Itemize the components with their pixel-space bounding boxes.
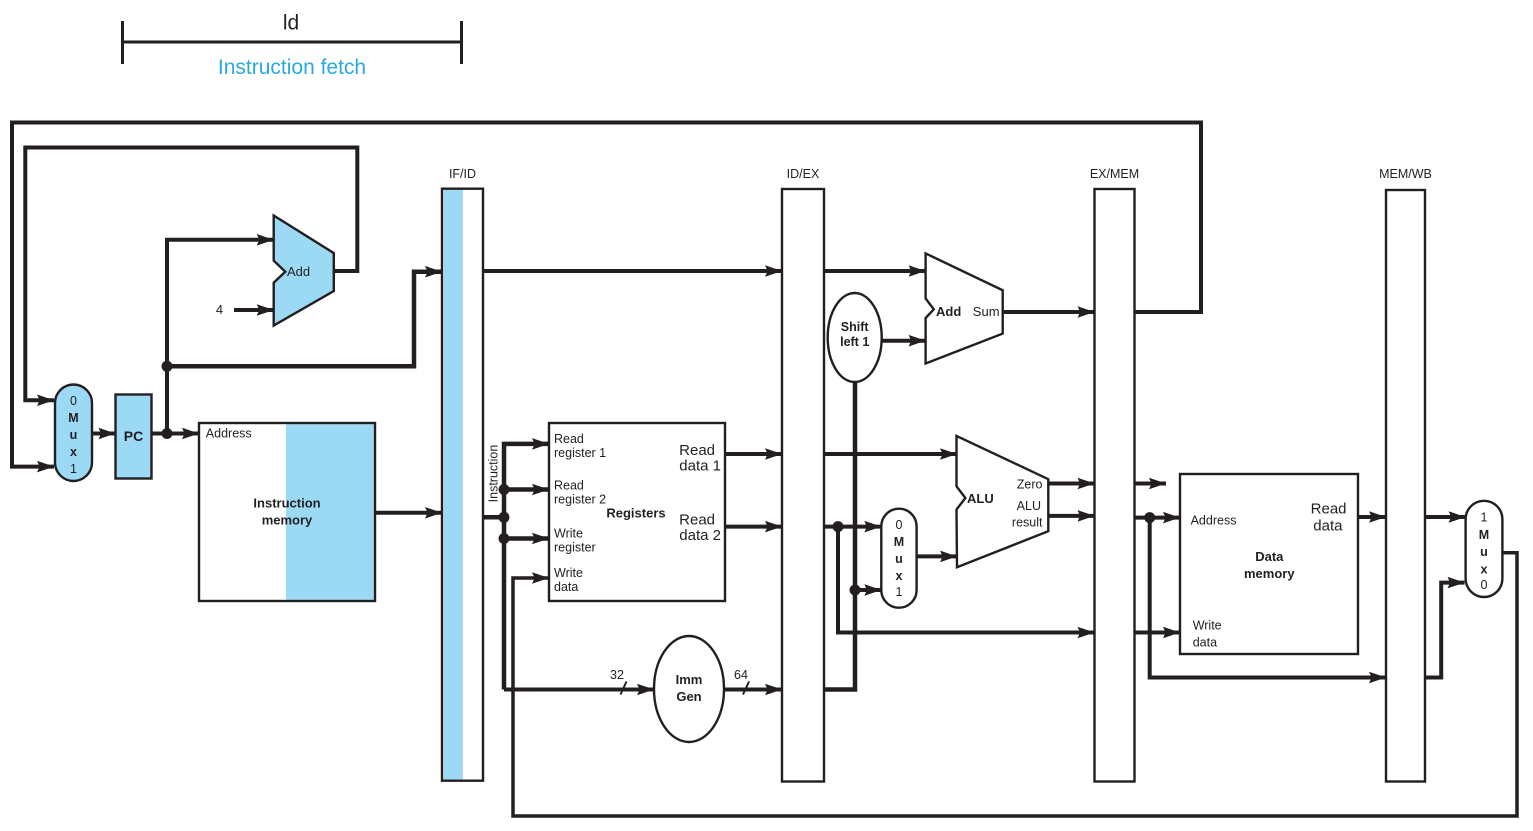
svg-text:Zero: Zero [1017,478,1043,492]
slash 64-bit [743,682,749,695]
pipeline register ID/EX [782,167,824,782]
svg-text:x: x [70,445,77,459]
svg-text:MEM/WB: MEM/WB [1379,167,1432,181]
wire PC to Instruction memory Address [152,432,199,436]
wire instruction to Write register [504,536,549,541]
junction instruction read register 2 [499,484,510,495]
svg-text:M: M [894,535,904,549]
block Registers [549,423,725,601]
wire write-back to Write data [513,553,1517,816]
svg-text:Address: Address [1191,514,1237,528]
adder Add (branch target) [926,253,1003,363]
svg-text:IF/ID: IF/ID [449,167,476,181]
wire ALU result branch to MEM/WB [1150,518,1386,678]
wire EX/MEM write data to Data memory [1135,631,1181,635]
wire MEM/WB ALU result to Mux 0 [1425,583,1465,678]
wire PC value to IF/ID [167,272,442,367]
svg-text:1: 1 [896,585,903,599]
mux M1 (PC source) [55,385,92,482]
svg-text:0: 0 [1481,578,1488,592]
register PC [116,395,152,479]
svg-text:Read: Read [554,479,584,493]
junction immediate [850,585,861,596]
svg-text:memory: memory [262,513,313,528]
adder Add (PC+4) [274,216,334,326]
junction instruction main [499,512,510,523]
svg-text:Write: Write [554,527,583,541]
wire Instruction memory to IF/ID [375,511,442,515]
svg-text:result: result [1012,516,1043,530]
svg-text:Gen: Gen [676,689,701,704]
block Shift left 1 [828,293,882,382]
svg-text:Read: Read [554,432,584,446]
svg-text:0: 0 [70,394,77,408]
svg-text:ALU: ALU [967,491,994,506]
svg-text:64: 64 [734,668,748,682]
wire PC+4 feedback loop to Mux input 0 [25,148,357,401]
svg-text:x: x [1481,563,1488,577]
junction PC out [162,428,173,439]
svg-text:u: u [70,428,78,442]
svg-text:data 2: data 2 [679,527,721,544]
svg-text:register: register [554,541,596,555]
wire ID/EX read data 1 to ALU [824,452,957,456]
svg-text:M: M [1479,528,1489,542]
svg-text:Write: Write [554,566,583,580]
block Data memory [1180,474,1358,654]
svg-text:data: data [1313,518,1343,535]
svg-text:data 1: data 1 [679,458,721,475]
wire read data 2 branch to EX/MEM [838,527,1095,633]
svg-text:Data: Data [1255,549,1284,564]
wire IF/ID PC value to ID/EX [483,269,782,273]
svg-text:Sum: Sum [973,304,1000,319]
svg-text:Add: Add [936,304,961,319]
wire ALU Zero to EX/MEM [1048,482,1094,486]
block Instruction memory [199,423,375,601]
wire MEM/WB read data to Mux 1 [1425,515,1466,519]
bracket for ld span [123,21,462,64]
svg-text:ALU: ALU [1017,499,1041,513]
wire EX/MEM Zero out [1135,482,1167,486]
svg-text:Instruction: Instruction [487,445,501,503]
ALU [957,436,1049,567]
svg-text:register 2: register 2 [554,493,606,507]
wire ID/EX PC value to Add top input [824,269,926,273]
svg-text:Address: Address [206,427,252,441]
junction instruction write register [499,533,510,544]
pipeline register IF/ID [442,167,483,781]
svg-text:data: data [1193,635,1217,649]
wire EX/MEM ALU result to Data memory Address [1135,516,1181,520]
svg-text:32: 32 [610,668,624,682]
svg-text:Read: Read [679,442,715,459]
mux M2 (ALU operand B) [881,509,916,608]
svg-text:x: x [896,569,903,583]
wire immediate to Mux 1 [855,588,881,592]
svg-text:left 1: left 1 [840,335,869,349]
mux M3 (write-back) [1466,501,1503,597]
svg-text:4: 4 [216,302,223,317]
wire Mux to ALU lower input [917,554,957,558]
svg-text:PC: PC [124,428,143,444]
svg-text:Write: Write [1193,619,1222,633]
pipeline register MEM/WB [1379,167,1432,782]
svg-text:memory: memory [1244,566,1295,581]
wire instruction to Read register 1 [504,444,549,690]
svg-text:ld: ld [283,12,299,35]
svg-text:Read: Read [679,512,715,529]
svg-text:Instruction: Instruction [253,495,320,510]
wire instruction to Read register 2 [504,487,549,492]
svg-text:data: data [554,580,578,594]
wire Add Sum to EX/MEM [1003,310,1095,314]
wire ID/EX immediate up to Shift left 1 [824,382,855,690]
svg-text:0: 0 [896,518,903,532]
wire PC up to Add top input [167,240,274,434]
wire ID/EX read data 2 to Mux 0 [824,525,881,529]
wire Imm Gen to ID/EX [724,688,782,692]
pipeline register EX/MEM [1090,167,1139,782]
wire instruction to Imm Gen [504,688,654,692]
wire Read data 1 to ID/EX [725,452,782,456]
junction read data 2 [833,521,844,532]
block Imm Gen [654,636,724,742]
svg-text:Registers: Registers [606,506,665,521]
svg-text:Instruction fetch: Instruction fetch [218,56,366,79]
wire ALU result to EX/MEM [1048,514,1094,518]
wire branch target loop EX/MEM to Mux input 1 [12,123,1201,467]
svg-text:1: 1 [70,462,77,476]
wire constant 4 to Add [234,308,274,312]
wire Read data 2 to ID/EX [725,525,782,529]
slash 32-bit [621,682,627,695]
svg-text:ID/EX: ID/EX [787,167,820,181]
svg-text:Read: Read [1311,501,1347,518]
svg-text:EX/MEM: EX/MEM [1090,167,1139,181]
svg-text:Imm: Imm [676,672,703,687]
svg-text:Shift: Shift [841,320,870,334]
svg-text:u: u [895,552,903,566]
junction PC branch [162,361,173,372]
svg-text:Add: Add [287,264,310,279]
svg-text:register 1: register 1 [554,446,606,460]
wire Mux to PC [92,432,116,436]
wire Data memory Read data to MEM/WB [1358,515,1386,519]
svg-text:u: u [1480,545,1488,559]
junction ALU result [1144,512,1155,523]
wire Shift left 1 to Add [882,339,926,343]
svg-text:1: 1 [1481,511,1488,525]
wire IF/ID instruction out to junction [483,515,504,520]
svg-text:M: M [68,411,78,425]
